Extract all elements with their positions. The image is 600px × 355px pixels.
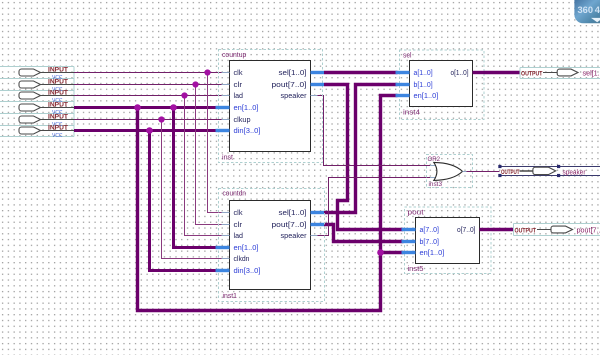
svg-text:sel[1..0]: sel[1..0] <box>279 210 307 217</box>
svg-text:clk: clk <box>234 70 244 77</box>
bus wire countdn.pout to pout.b <box>324 225 404 242</box>
junction din <box>146 127 153 134</box>
svg-text:inst1: inst1 <box>223 293 238 300</box>
wire lad row <box>74 95 222 97</box>
svg-text:din[3..0]: din[3..0] <box>234 128 261 135</box>
svg-text:inst4: inst4 <box>403 110 420 117</box>
svg-text:en[1..0]: en[1..0] <box>234 245 259 252</box>
svg-text:4: 4 <box>595 4 600 15</box>
svg-text:en[1..0]: en[1..0] <box>420 250 445 257</box>
svg-text:INPUT: INPUT <box>48 79 68 86</box>
junction clr <box>192 81 198 87</box>
svg-text:clr: clr <box>234 82 243 89</box>
wire clk branch to countdn <box>208 73 222 213</box>
svg-text:a[7..0]: a[7..0] <box>420 227 440 234</box>
svg-text:b[7..0]: b[7..0] <box>420 239 440 246</box>
svg-text:clkdn: clkdn <box>234 256 250 263</box>
svg-text:INPUT: INPUT <box>48 125 68 132</box>
svg-text:inst5: inst5 <box>408 266 424 273</box>
wire en branch to countdn <box>174 108 216 248</box>
svg-text:360: 360 <box>578 4 594 15</box>
svg-text:OUTPUT: OUTPUT <box>501 169 520 176</box>
block pout (inst5) <box>402 207 492 274</box>
junction clk <box>204 69 210 75</box>
svg-text:countup: countup <box>222 52 246 59</box>
svg-text:clkup: clkup <box>234 117 251 124</box>
svg-text:OUTPUT: OUTPUT <box>521 70 543 77</box>
svg-text:speaker: speaker <box>563 167 587 176</box>
svg-text:countdn: countdn <box>223 191 246 198</box>
svg-text:a[1..0]: a[1..0] <box>414 70 433 77</box>
svg-text:sel[1..0]: sel[1..0] <box>583 68 600 77</box>
bus wire pout.o to output pin <box>492 228 514 231</box>
wire clr branch to countdn <box>196 85 222 225</box>
bus wire sel.o to output pin <box>484 71 520 74</box>
svg-text:en[1..0]: en[1..0] <box>414 93 439 100</box>
svg-text:sel: sel <box>403 53 412 60</box>
input pin 6 <box>19 125 74 139</box>
input pin 1 <box>19 67 74 81</box>
wire clkup branch to countdn <box>162 120 222 259</box>
svg-text:b[1..0]: b[1..0] <box>414 82 433 89</box>
junction en-a <box>134 104 141 111</box>
svg-text:speaker: speaker <box>281 93 308 100</box>
svg-text:INPUT: INPUT <box>48 102 68 109</box>
svg-text:OUTPUT: OUTPUT <box>515 227 537 234</box>
svg-text:en[1..0]: en[1..0] <box>234 105 259 112</box>
svg-text:sel[1..0]: sel[1..0] <box>279 70 307 77</box>
svg-text:pout[7..0]: pout[7..0] <box>577 225 600 234</box>
browser badge overlay <box>574 0 600 23</box>
svg-text:inst3: inst3 <box>429 181 443 188</box>
input pin 2 <box>19 79 74 93</box>
svg-text:clr: clr <box>234 222 243 229</box>
block countdn (inst1) <box>216 189 325 302</box>
svg-text:speaker: speaker <box>281 233 308 240</box>
svg-text:pout[7..0]: pout[7..0] <box>272 222 307 229</box>
block countup (inst) <box>216 50 325 163</box>
wire clk row <box>74 72 222 74</box>
svg-text:pout: pout <box>408 210 424 217</box>
junction lad <box>181 92 187 98</box>
svg-text:lad: lad <box>234 93 244 100</box>
wire countup.speaker to OR2 input1 <box>318 96 431 166</box>
wire countdn.speaker to OR2 input2 <box>318 178 431 236</box>
svg-text:inst: inst <box>222 155 233 162</box>
gate OR2 (inst3) <box>427 155 473 189</box>
output pin sel[1..0] <box>520 68 600 79</box>
bus wire countup.sel to sel.a <box>324 71 398 74</box>
junction en-b <box>170 104 177 111</box>
output pin pout[7..0] <box>514 224 600 236</box>
svg-text:lad: lad <box>234 233 244 240</box>
svg-text:o[7..0]: o[7..0] <box>457 227 476 234</box>
svg-text:pout[7..0]: pout[7..0] <box>272 82 307 89</box>
input pin 4 <box>19 102 74 116</box>
bus wire en long branch to sel.en/pout.en <box>138 96 398 311</box>
bus wire countup.pout to pout.a <box>324 85 404 230</box>
wire en row <box>74 106 216 109</box>
wire clr row <box>74 84 222 86</box>
wire clkup row <box>74 119 222 121</box>
input pin selection boxes <box>0 67 74 137</box>
input pin 5 <box>19 114 74 128</box>
bus wire countdn.sel to sel.b <box>324 85 398 213</box>
input pin 3 <box>19 90 74 104</box>
svg-text:o[1..0]: o[1..0] <box>451 70 469 77</box>
bus wire en spur to pout.en <box>381 251 404 254</box>
wire din branch to countdn <box>150 131 216 271</box>
svg-text:VCC: VCC <box>52 133 63 139</box>
svg-text:INPUT: INPUT <box>48 114 68 121</box>
svg-text:INPUT: INPUT <box>48 90 68 97</box>
wire lad branch to countdn <box>185 96 222 236</box>
block sel (inst4) <box>396 50 485 120</box>
svg-text:INPUT: INPUT <box>48 67 68 74</box>
output pin speaker (selected) <box>498 165 600 177</box>
junction en-pout <box>377 249 384 256</box>
wire din row <box>74 129 216 132</box>
svg-text:din[3..0]: din[3..0] <box>234 268 261 275</box>
svg-text:clk: clk <box>234 210 244 217</box>
wire OR2 output to speaker pin <box>467 171 500 173</box>
junction clkup <box>158 116 164 122</box>
